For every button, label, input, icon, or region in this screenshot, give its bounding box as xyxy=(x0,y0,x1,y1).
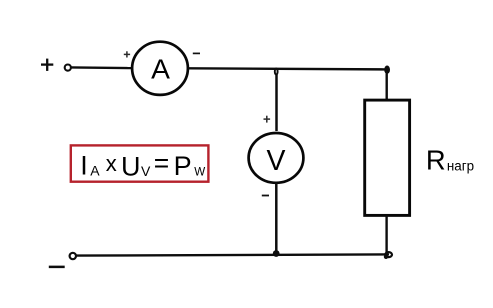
svg-text:I: I xyxy=(80,151,88,181)
voltmeter V xyxy=(249,133,304,183)
svg-text:P: P xyxy=(174,151,192,181)
formula box (red) xyxy=(71,145,209,181)
svg-text:=: = xyxy=(154,148,169,178)
ammeter − polarity xyxy=(193,52,200,54)
voltmeter − polarity xyxy=(262,195,269,197)
node: bottom right corner junction xyxy=(384,252,392,259)
voltmeter + polarity xyxy=(264,116,271,123)
svg-text:V: V xyxy=(141,163,151,179)
terminal circle (negative) xyxy=(70,253,76,259)
svg-text:A: A xyxy=(90,163,100,179)
svg-text:A: A xyxy=(151,52,170,84)
wire: bottom return xyxy=(76,254,389,255)
svg-text:x: x xyxy=(106,151,117,176)
svg-text:W: W xyxy=(194,166,205,179)
terminal + (positive) xyxy=(41,59,53,71)
svg-text:Rнагр: Rнагр xyxy=(426,145,474,176)
terminal circle (positive) xyxy=(65,65,71,71)
wire: ammeter to node B (top wire) xyxy=(188,68,385,69)
node: voltmeter top junction xyxy=(275,68,278,74)
wire: resistor bottom to junction xyxy=(385,216,387,255)
terminal − (negative) xyxy=(49,266,65,269)
wire: voltmeter to bottom junction xyxy=(275,183,278,254)
ammeter A xyxy=(132,42,188,95)
svg-text:V: V xyxy=(267,145,286,177)
node: voltmeter bottom junction xyxy=(273,250,280,257)
resistor R_nagr (body) xyxy=(365,100,410,215)
svg-text:U: U xyxy=(121,151,141,181)
node: top right corner junction xyxy=(384,66,390,74)
ammeter + polarity xyxy=(124,51,130,57)
wire: top junction to voltmeter xyxy=(275,75,278,132)
wire: node B down to resistor xyxy=(386,69,388,100)
formula I_A x U_V = P_W xyxy=(80,148,205,181)
wire: positive terminal to ammeter xyxy=(71,66,132,69)
